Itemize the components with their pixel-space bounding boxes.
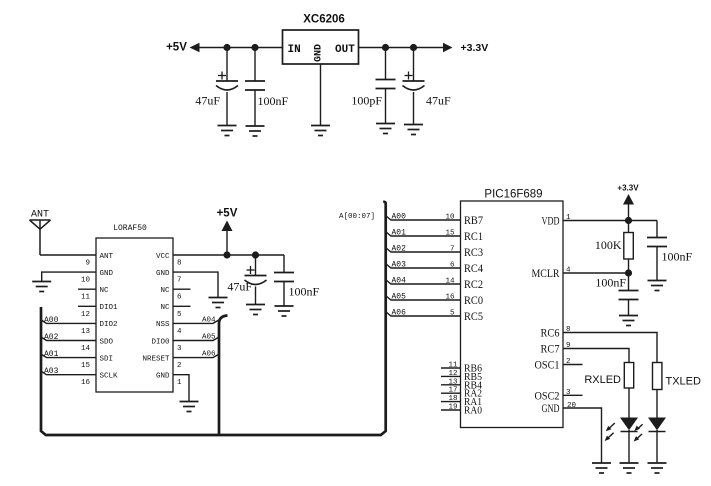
junction bbox=[382, 44, 389, 51]
junction bbox=[625, 217, 632, 224]
svg-text:GND: GND bbox=[156, 373, 170, 381]
wire net A03 to PIC bbox=[386, 264, 461, 269]
wire R1 to MCLR bbox=[628, 259, 630, 273]
wire net A02 bbox=[41, 337, 96, 341]
svg-text:PIC16F689: PIC16F689 bbox=[484, 189, 542, 201]
svg-text:14: 14 bbox=[81, 345, 91, 353]
svg-text:2: 2 bbox=[177, 362, 182, 370]
svg-text:IN: IN bbox=[288, 44, 301, 56]
svg-text:6: 6 bbox=[177, 294, 182, 302]
svg-text:+5V: +5V bbox=[166, 42, 187, 54]
svg-text:LORAF50: LORAF50 bbox=[113, 224, 147, 233]
wire +5V to VCC rail bbox=[226, 231, 228, 255]
regulator U XC6206 bbox=[283, 30, 359, 64]
capacitor C5 47uF bbox=[245, 266, 267, 285]
svg-text:DIO0: DIO0 bbox=[151, 338, 170, 346]
svg-text:NC: NC bbox=[100, 287, 110, 295]
wire MCLR bbox=[563, 272, 629, 274]
ground bbox=[246, 305, 265, 315]
svg-text:16: 16 bbox=[445, 294, 455, 302]
svg-text:ANT: ANT bbox=[100, 253, 114, 261]
wire net A05 to PIC bbox=[386, 296, 461, 301]
svg-text:+3.3V: +3.3V bbox=[461, 42, 489, 54]
svg-text:VDD: VDD bbox=[542, 214, 560, 228]
capacitor C1 47uF bbox=[216, 72, 238, 91]
svg-text:RC1: RC1 bbox=[464, 229, 483, 243]
svg-text:13: 13 bbox=[81, 328, 91, 336]
svg-text:NC: NC bbox=[160, 304, 170, 312]
wire C4 to ground bbox=[413, 92, 415, 125]
svg-text:9: 9 bbox=[85, 260, 90, 268]
svg-text:RC0: RC0 bbox=[464, 293, 483, 307]
capacitor C3 100pF bbox=[376, 80, 396, 89]
svg-text:VCC: VCC bbox=[156, 253, 170, 261]
svg-text:6: 6 bbox=[450, 262, 455, 270]
svg-text:RXLED: RXLED bbox=[584, 374, 621, 386]
wire RC7 to RXLED bbox=[563, 349, 629, 363]
svg-text:SCLK: SCLK bbox=[100, 373, 119, 381]
+3.3V arrow (up) bbox=[623, 194, 634, 205]
svg-text:NC: NC bbox=[160, 287, 170, 295]
svg-text:TXLED: TXLED bbox=[666, 376, 702, 388]
wire net A02 to PIC bbox=[386, 248, 461, 253]
svg-text:A04: A04 bbox=[202, 316, 216, 324]
LED D2 bbox=[648, 418, 666, 432]
svg-text:100nF: 100nF bbox=[289, 285, 320, 299]
wire cap C2 to rail bbox=[254, 48, 256, 82]
svg-text:10: 10 bbox=[81, 277, 91, 285]
wire R2 to LED1 bbox=[628, 388, 630, 418]
resistor R3 TXLED bbox=[653, 363, 662, 390]
svg-text:ANT: ANT bbox=[31, 210, 49, 221]
junction bbox=[625, 269, 632, 276]
ground bbox=[180, 402, 199, 412]
svg-text:+5V: +5V bbox=[217, 208, 238, 220]
junction bbox=[410, 44, 417, 51]
svg-text:GND: GND bbox=[100, 270, 114, 278]
wire ANT to pin 9 bbox=[40, 254, 96, 256]
wire net A04 bbox=[173, 320, 219, 324]
wire pin10 GND bbox=[42, 272, 96, 281]
svg-text:7: 7 bbox=[450, 246, 455, 254]
svg-text:A00: A00 bbox=[392, 213, 407, 222]
wire VCC pin8 bbox=[173, 254, 284, 256]
wire LED2 to ground bbox=[656, 430, 658, 463]
wire VDD to R1 bbox=[628, 221, 630, 233]
wire LED1 to ground bbox=[628, 430, 630, 463]
antenna ANT bbox=[30, 210, 51, 256]
wire C2 to ground bbox=[254, 90, 256, 126]
svg-text:A02: A02 bbox=[44, 333, 59, 342]
svg-text:1: 1 bbox=[177, 379, 182, 387]
ground bbox=[218, 126, 237, 136]
svg-text:12: 12 bbox=[448, 370, 457, 378]
junction bbox=[223, 251, 230, 258]
svg-text:RB7: RB7 bbox=[464, 213, 483, 227]
svg-text:100nF: 100nF bbox=[595, 276, 626, 290]
svg-text:GND: GND bbox=[156, 270, 170, 278]
wire net A01 to PIC bbox=[386, 232, 461, 237]
IC U2 LORAF50 bbox=[96, 238, 173, 392]
ground bbox=[619, 316, 638, 326]
svg-text:DIO1: DIO1 bbox=[100, 304, 119, 312]
svg-text:11: 11 bbox=[81, 294, 91, 302]
svg-text:100pF: 100pF bbox=[351, 94, 382, 108]
ground bbox=[209, 298, 228, 308]
wire net A06 bbox=[173, 354, 219, 358]
svg-text:A03: A03 bbox=[44, 367, 59, 376]
svg-text:13: 13 bbox=[448, 378, 458, 386]
ground bbox=[592, 463, 611, 473]
svg-text:GND: GND bbox=[314, 44, 325, 62]
bus A[00:07] main bbox=[41, 202, 386, 435]
svg-text:47uF: 47uF bbox=[195, 94, 220, 108]
svg-text:A[00:07]: A[00:07] bbox=[339, 213, 375, 221]
svg-text:RC5: RC5 bbox=[464, 309, 483, 323]
wire VDD bbox=[563, 220, 657, 222]
ground bbox=[275, 306, 294, 316]
wire net A06 to PIC bbox=[386, 312, 461, 317]
wire C1 to ground bbox=[226, 92, 228, 126]
pin 19 stub bbox=[441, 409, 461, 411]
svg-text:16: 16 bbox=[81, 379, 91, 387]
pin 12 DIO1 stub bbox=[78, 305, 96, 307]
capacitor C2 100nF bbox=[245, 81, 265, 90]
svg-text:18: 18 bbox=[448, 395, 457, 403]
pin 2 OSC1 stub bbox=[563, 364, 583, 366]
svg-text:100nF: 100nF bbox=[258, 94, 289, 108]
wire RC6 to TXLED bbox=[563, 333, 657, 363]
wire +3.3V down bbox=[628, 205, 630, 221]
pin 13 stub bbox=[441, 384, 461, 386]
svg-text:11: 11 bbox=[448, 362, 458, 370]
+5V arrow (up) bbox=[222, 221, 233, 232]
svg-text:RC2: RC2 bbox=[464, 277, 483, 291]
+3.3V arrow (right) bbox=[443, 43, 453, 52]
ground bbox=[648, 281, 667, 291]
wire MCLR to C7 bbox=[628, 273, 630, 291]
svg-text:14: 14 bbox=[445, 278, 455, 286]
resistor R2 RXLED bbox=[624, 363, 633, 389]
wire net A03 bbox=[41, 371, 96, 375]
svg-text:GND: GND bbox=[542, 401, 560, 415]
pin 11 stub bbox=[441, 367, 461, 369]
wire cap C4 to rail bbox=[413, 48, 415, 82]
svg-text:NSS: NSS bbox=[156, 321, 170, 329]
capacitor C4 47uF bbox=[403, 72, 425, 91]
wire net A01 bbox=[41, 354, 96, 358]
wire cap C6 bbox=[283, 255, 285, 273]
wire VDD to C8 bbox=[656, 221, 658, 238]
svg-text:8: 8 bbox=[177, 260, 182, 268]
wire pin1 GND bbox=[173, 375, 189, 402]
svg-text:19: 19 bbox=[448, 404, 457, 412]
LED D1 arrows bbox=[605, 423, 615, 441]
ground bbox=[376, 124, 395, 134]
svg-text:SDI: SDI bbox=[100, 355, 114, 363]
svg-text:RC3: RC3 bbox=[464, 245, 483, 259]
svg-text:OUT: OUT bbox=[335, 44, 355, 56]
wire cap C5 bbox=[255, 255, 257, 276]
svg-text:A01: A01 bbox=[44, 350, 59, 359]
svg-text:10: 10 bbox=[445, 214, 455, 222]
ground bbox=[311, 126, 330, 136]
svg-text:RC6: RC6 bbox=[541, 326, 560, 340]
svg-text:NRESET: NRESET bbox=[142, 355, 170, 363]
svg-text:MCLR: MCLR bbox=[532, 266, 560, 280]
junction bbox=[252, 251, 259, 258]
pin 3 OSC2 stub bbox=[563, 394, 583, 396]
svg-text:RA0: RA0 bbox=[464, 406, 482, 417]
svg-text:A05: A05 bbox=[202, 334, 216, 342]
svg-text:A00: A00 bbox=[44, 316, 59, 325]
capacitor C8 100nF bbox=[647, 238, 667, 247]
ground bbox=[404, 125, 423, 135]
svg-text:A01: A01 bbox=[392, 229, 407, 238]
ground bbox=[246, 126, 265, 136]
svg-text:+3.3V: +3.3V bbox=[617, 184, 639, 193]
pin 17 stub bbox=[441, 392, 461, 394]
LED D1 bbox=[620, 418, 638, 432]
svg-text:A06: A06 bbox=[202, 351, 216, 359]
wire pin7 GND bbox=[173, 272, 218, 297]
junction bbox=[251, 44, 258, 51]
capacitor C7 100nF bbox=[619, 291, 639, 300]
wire GND pin20 bbox=[563, 408, 602, 463]
resistor R1 100K bbox=[624, 233, 634, 260]
wire R3 to LED2 bbox=[656, 390, 658, 418]
svg-text:5: 5 bbox=[177, 311, 182, 319]
wire cap C1 to rail bbox=[226, 48, 228, 82]
wire OUT to +3.3V bbox=[359, 47, 444, 49]
wire net A05 bbox=[173, 337, 219, 341]
svg-text:XC6206: XC6206 bbox=[303, 14, 345, 26]
svg-text:SDO: SDO bbox=[100, 338, 114, 346]
svg-text:20: 20 bbox=[567, 402, 577, 410]
svg-text:3: 3 bbox=[177, 345, 182, 353]
wire net A00 bbox=[41, 320, 96, 324]
wire C3 to ground bbox=[385, 89, 387, 124]
pin 18 stub bbox=[441, 401, 461, 403]
svg-text:15: 15 bbox=[445, 230, 455, 238]
pin 11 NC stub bbox=[78, 288, 96, 290]
IC U3 PIC16F689 bbox=[461, 201, 564, 428]
ground bbox=[620, 463, 639, 473]
LED D2 arrows bbox=[634, 424, 643, 441]
pin 5 NC stub bbox=[173, 305, 191, 307]
capacitor C6 100nF bbox=[274, 273, 294, 282]
bus A[00:07] branch (LORAF50 right) bbox=[219, 316, 228, 436]
svg-text:47uF: 47uF bbox=[227, 280, 252, 294]
svg-text:A02: A02 bbox=[392, 245, 407, 254]
svg-text:A04: A04 bbox=[392, 277, 407, 286]
svg-text:100K: 100K bbox=[595, 238, 622, 252]
ground bbox=[32, 282, 51, 292]
svg-text:RC7: RC7 bbox=[541, 342, 560, 356]
pin 12 stub bbox=[441, 375, 461, 377]
svg-text:DIO2: DIO2 bbox=[100, 321, 118, 329]
pin 6 NC stub bbox=[173, 288, 191, 290]
svg-text:100nF: 100nF bbox=[662, 250, 693, 264]
+5V arrow (left) bbox=[190, 43, 200, 52]
svg-text:17: 17 bbox=[448, 387, 457, 395]
svg-text:A05: A05 bbox=[392, 293, 407, 302]
wire cap C3 to rail bbox=[385, 48, 387, 80]
svg-text:12: 12 bbox=[81, 311, 90, 319]
svg-text:A06: A06 bbox=[392, 309, 407, 318]
svg-text:5: 5 bbox=[450, 310, 455, 318]
wire +5V rail to IN bbox=[199, 47, 283, 49]
svg-text:7: 7 bbox=[177, 277, 182, 285]
svg-text:15: 15 bbox=[81, 362, 91, 370]
junction bbox=[223, 44, 230, 51]
ground bbox=[648, 463, 667, 473]
svg-text:A03: A03 bbox=[392, 261, 407, 270]
wire regulator GND pin bbox=[320, 64, 322, 126]
svg-text:47uF: 47uF bbox=[426, 94, 451, 108]
wire net A00 to PIC bbox=[386, 216, 461, 221]
svg-text:4: 4 bbox=[177, 328, 182, 336]
wire net A04 to PIC bbox=[386, 280, 461, 285]
svg-text:OSC1: OSC1 bbox=[535, 358, 560, 372]
svg-text:RC4: RC4 bbox=[464, 261, 483, 275]
